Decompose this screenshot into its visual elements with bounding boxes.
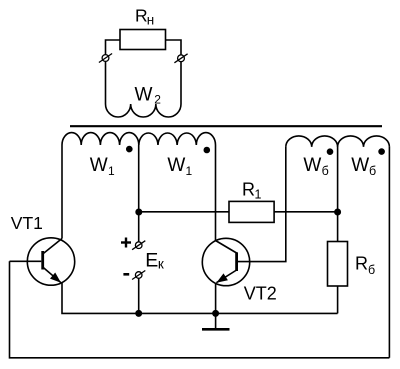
svg-text:1: 1 [186, 164, 193, 178]
svg-text:б: б [322, 164, 329, 178]
svg-text:1: 1 [108, 164, 115, 178]
svg-text:W: W [167, 155, 185, 176]
svg-text:к: к [158, 256, 164, 271]
svg-text:R: R [135, 5, 148, 25]
svg-text:VT1: VT1 [11, 213, 43, 233]
svg-text:R: R [242, 179, 255, 199]
svg-text:W: W [351, 155, 369, 176]
svg-text:VT2: VT2 [244, 284, 277, 304]
svg-text:2: 2 [154, 93, 161, 107]
svg-text:н: н [147, 12, 154, 27]
svg-text:W: W [135, 85, 153, 106]
svg-text:б: б [368, 263, 375, 277]
svg-text:R: R [355, 254, 368, 274]
svg-text:1: 1 [255, 188, 262, 202]
svg-text:W: W [90, 155, 108, 176]
svg-text:E: E [145, 250, 158, 272]
svg-text:W: W [303, 155, 321, 176]
svg-text:б: б [369, 164, 376, 178]
